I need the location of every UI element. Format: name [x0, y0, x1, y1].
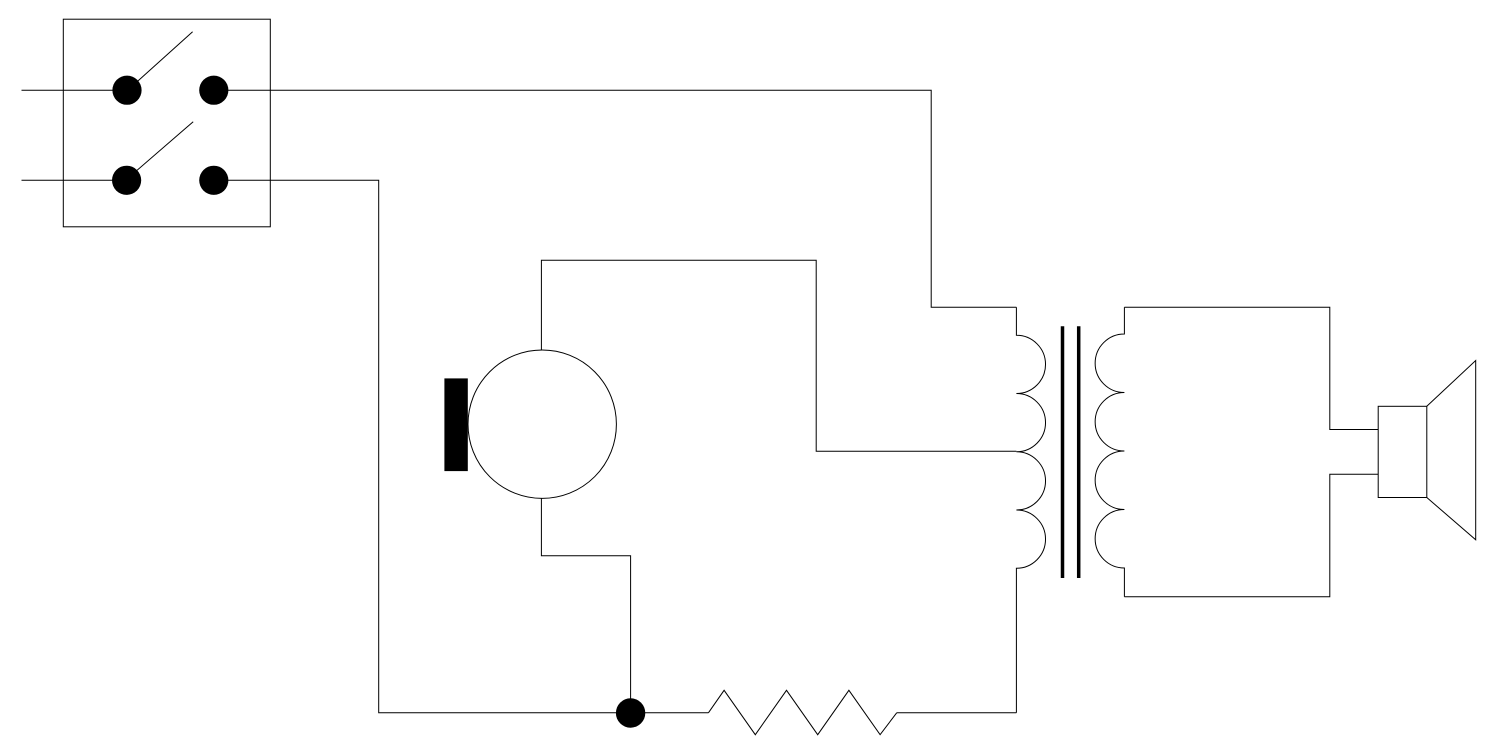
wire: secondary bottom to speaker — [1124, 474, 1378, 597]
transformer core line right — [1077, 326, 1081, 578]
wire: left lead top — [22, 89, 128, 91]
switch contact pole 2 output — [199, 166, 228, 195]
transformer primary winding — [1016, 307, 1045, 713]
switch contact pole 1 output — [199, 76, 228, 105]
wire: microphone top to transformer center tap — [541, 260, 1016, 451]
wire: resistor to transformer primary bottom — [897, 712, 1017, 714]
wire: secondary top to speaker — [1124, 307, 1378, 429]
speaker horn — [1427, 361, 1476, 540]
transformer core line left — [1061, 326, 1065, 578]
switch contact pole 1 input — [112, 76, 141, 105]
wire: junction to resistor — [631, 712, 709, 714]
switch contact pole 2 input — [112, 166, 141, 195]
transformer secondary winding — [1095, 307, 1124, 597]
switch arm pole 1 — [128, 32, 193, 90]
resistor — [709, 690, 897, 734]
wire: microphone bottom to junction — [541, 498, 630, 712]
microphone button — [444, 378, 467, 471]
speaker driver — [1378, 406, 1427, 497]
junction dot — [616, 698, 645, 727]
microphone body — [468, 350, 616, 498]
switch arm pole 2 — [126, 122, 194, 181]
wire: switch pole 2 to bottom rail — [214, 180, 631, 712]
switch S1 enclosure — [63, 19, 270, 227]
wire: switch pole 1 to transformer primary top — [214, 90, 1017, 307]
wire: left lead bottom — [22, 179, 126, 181]
